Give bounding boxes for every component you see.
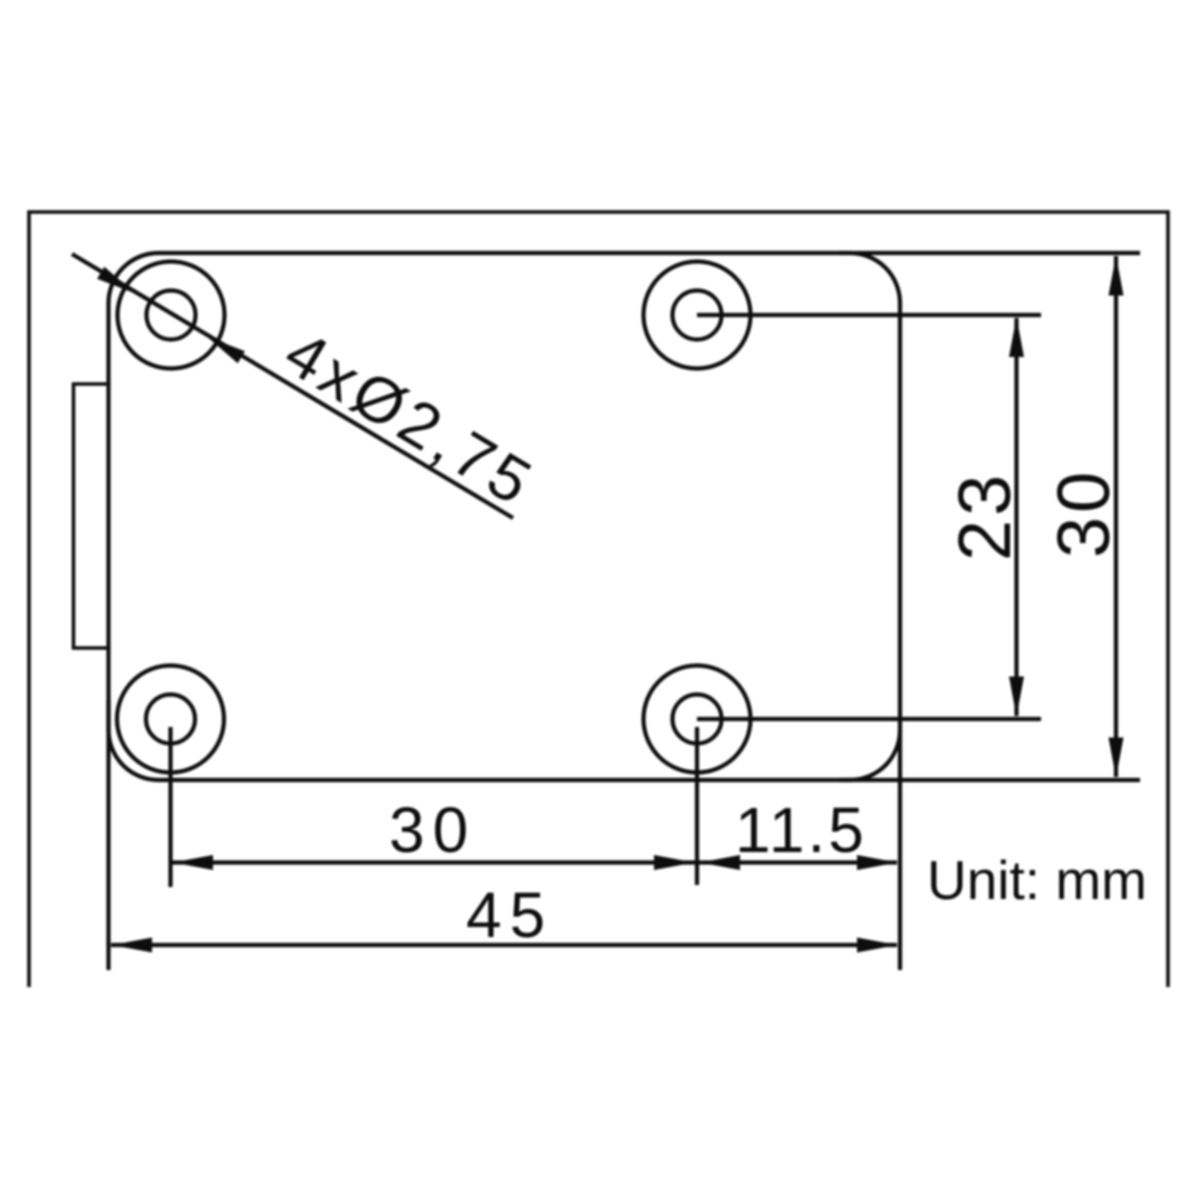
hole top-right outer xyxy=(644,262,751,369)
hole top-left outer xyxy=(118,262,225,369)
dimension line 30 bottom xyxy=(172,860,695,864)
hole bottom-right inner xyxy=(673,695,722,744)
hole top-right inner xyxy=(673,291,722,340)
svg-text:23: 23 xyxy=(943,471,1026,561)
extension line hole BR center xyxy=(697,717,1041,721)
connector notch xyxy=(74,384,109,648)
border frame xyxy=(29,212,1168,987)
extension line bottom edge xyxy=(840,778,1140,782)
arrowhead 30bottom right xyxy=(654,855,694,870)
arrowhead 23 up xyxy=(1009,317,1024,357)
dimension line 45 xyxy=(111,943,897,947)
dimension line 30 right xyxy=(1114,256,1118,777)
extension line below hole BR xyxy=(695,727,699,885)
arrowhead 23 down xyxy=(1009,677,1024,717)
hole bottom-left outer xyxy=(117,666,224,773)
arrowhead 45 left xyxy=(112,938,152,953)
arrowhead 30right up xyxy=(1109,256,1124,296)
arrowhead 11.5 right xyxy=(857,855,897,870)
extension line hole TR center xyxy=(697,313,1041,317)
dimension line 23 xyxy=(1014,318,1018,716)
arrowhead 30bottom left xyxy=(173,855,213,870)
extension line board left edge down xyxy=(106,700,110,970)
svg-text:45: 45 xyxy=(466,879,553,951)
extension line board right edge down xyxy=(898,730,902,970)
leader line 4xD2.75 xyxy=(72,254,513,518)
hole top-left inner xyxy=(147,291,196,340)
arrowhead 11.5 left xyxy=(700,855,740,870)
arrowhead leader lower xyxy=(207,337,245,364)
arrowhead leader upper xyxy=(97,267,135,294)
svg-text:11.5: 11.5 xyxy=(735,794,867,866)
hole bottom-left inner xyxy=(146,695,195,744)
arrowhead 45 right xyxy=(857,938,897,953)
svg-text:30: 30 xyxy=(1042,468,1125,558)
extension line below hole BL xyxy=(168,727,172,887)
board outline xyxy=(109,253,901,780)
hole bottom-right outer xyxy=(644,666,751,773)
arrowhead 30right down xyxy=(1109,738,1124,778)
svg-text:30: 30 xyxy=(389,794,476,866)
dimension line 11.5 xyxy=(699,860,897,864)
svg-text:Unit: mm: Unit: mm xyxy=(927,849,1147,911)
extension line top edge xyxy=(840,251,1140,255)
